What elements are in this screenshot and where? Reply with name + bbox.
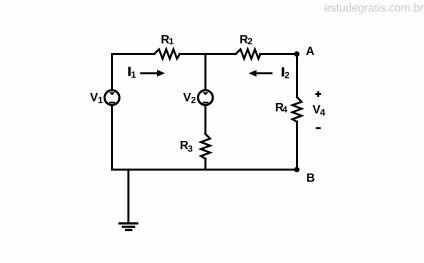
watermark estudegratis.com.br xyxy=(325,3,424,14)
label V4 plus xyxy=(315,91,321,97)
label R1 xyxy=(162,35,170,43)
current I2 label xyxy=(282,67,285,76)
wire middle branch V2 to R3 xyxy=(204,105,206,134)
wire top middle: R1 to R2 xyxy=(180,53,236,55)
node B label xyxy=(307,173,314,181)
ground xyxy=(118,223,138,230)
source V1 xyxy=(105,90,120,105)
label V4 minus xyxy=(316,127,321,129)
wire top right: R2 to node A xyxy=(260,53,297,55)
wire bottom xyxy=(112,169,297,171)
wire left branch xyxy=(111,54,113,170)
wire top left: corner to R1 xyxy=(112,53,154,55)
wire right branch: R4 to node B xyxy=(296,122,298,170)
label R4 xyxy=(276,103,284,111)
current I2 arrow xyxy=(249,70,273,77)
label V1 xyxy=(90,93,98,101)
node A label xyxy=(306,47,314,55)
node B xyxy=(294,167,299,172)
current I1 arrow xyxy=(140,70,165,77)
label R3 xyxy=(181,141,189,149)
label V2 xyxy=(183,93,191,101)
current I1 label xyxy=(128,67,131,76)
resistor R2 xyxy=(236,49,261,58)
resistor R1 xyxy=(154,49,180,58)
node A xyxy=(294,51,299,56)
resistor R4 xyxy=(292,97,301,122)
label R2 xyxy=(240,35,248,43)
wire right branch: A to R4 xyxy=(296,54,298,97)
wire middle branch top xyxy=(204,54,206,90)
source V2 xyxy=(198,90,213,105)
resistor R3 xyxy=(201,134,210,159)
label V4 xyxy=(313,105,321,113)
wire middle branch bottom xyxy=(204,159,206,170)
wire ground stem xyxy=(127,170,129,223)
